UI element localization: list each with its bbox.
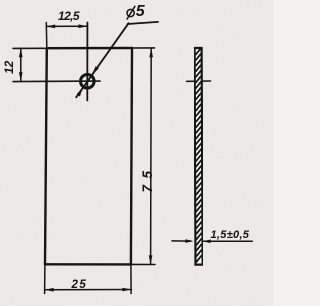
extension line: bottom-left extended down for 25 dim bbox=[44, 264, 46, 293]
arrow thickness left-pointing bbox=[203, 240, 211, 244]
arrow 25 left bbox=[45, 288, 54, 292]
thickness dim line left part bbox=[172, 240, 191, 242]
hole circle bbox=[81, 75, 95, 89]
plate front view: right edge bbox=[131, 48, 132, 264]
arrow dia5 lower bbox=[77, 88, 83, 97]
extension line: hole vertical centerline bbox=[86, 23, 88, 101]
arrow 12.5 left bbox=[46, 25, 55, 29]
plate front view: bottom edge with right extension bbox=[45, 263, 155, 265]
extension line: bottom-right extended down for 25 dim bbox=[130, 264, 132, 293]
label dia symbol bbox=[127, 9, 134, 16]
plate front view: bottom edge (object line) bbox=[45, 263, 131, 266]
arrow dia5 upper bbox=[92, 66, 99, 74]
side view centerline bbox=[187, 80, 211, 82]
dia-5 leader diagonal bbox=[76, 23, 128, 97]
dimension line 75 bbox=[150, 48, 153, 264]
side view centerline vertical tick bbox=[198, 74, 200, 89]
svg-text:5: 5 bbox=[136, 3, 146, 20]
side view strip with hatching bbox=[195, 48, 203, 265]
dimension line 25 bbox=[45, 289, 132, 291]
svg-text:12,5: 12,5 bbox=[58, 9, 80, 23]
thickness dim shelf right part bbox=[203, 240, 253, 242]
arrow 25 right bbox=[122, 288, 131, 292]
svg-text:75: 75 bbox=[140, 164, 155, 192]
svg-text:25: 25 bbox=[71, 279, 88, 291]
arrow 75 top bbox=[149, 48, 153, 57]
dimension line 12.5 bbox=[46, 25, 87, 27]
arrow thickness right-pointing bbox=[185, 239, 193, 243]
plate front view: top edge (object line) bbox=[47, 47, 132, 50]
arrow 12.5 right bbox=[78, 24, 87, 28]
arrow 12 top bbox=[19, 48, 23, 57]
dimension line 12 bbox=[20, 48, 22, 81]
dia-5 leader shelf bbox=[128, 22, 159, 24]
plate front view: top edge with extension lines bbox=[13, 47, 155, 50]
extension line: hole horizontal centerline bbox=[13, 80, 100, 83]
plate front view: left edge bbox=[45, 48, 47, 264]
svg-text:1,5±0,5: 1,5±0,5 bbox=[211, 229, 250, 241]
extension line: left edge extended up for 12.5 dim bbox=[45, 23, 48, 49]
arrow 12 bottom bbox=[19, 72, 23, 81]
svg-text:12: 12 bbox=[2, 60, 16, 74]
arrow 75 bottom bbox=[149, 255, 153, 264]
